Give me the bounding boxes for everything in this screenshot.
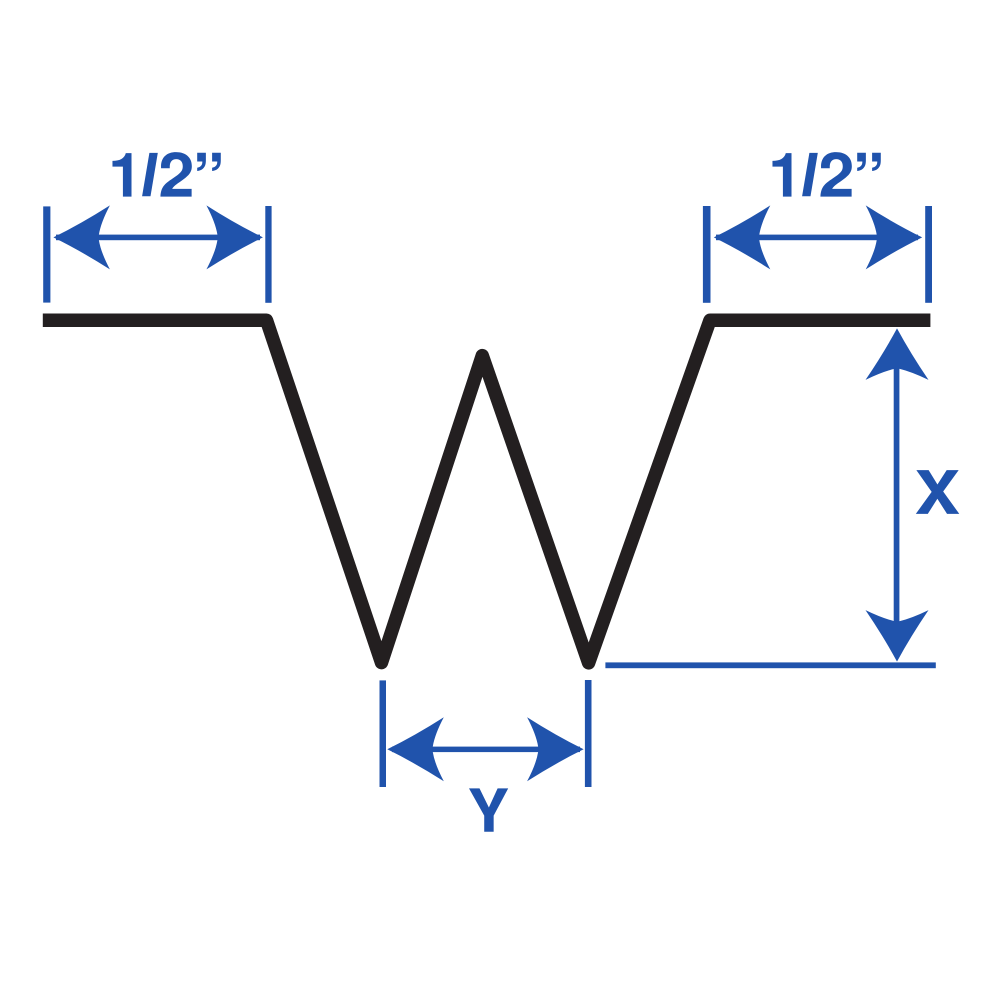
- label 1/2" left: slash: [142, 153, 158, 196]
- dim right: tick right: [925, 206, 932, 303]
- profile W outline: [43, 320, 931, 663]
- dim left: arrowhead right: [206, 205, 263, 269]
- label 1/2" left: digit 1: [112, 153, 131, 197]
- label X: [916, 470, 959, 514]
- dim X: shaft: [894, 335, 900, 655]
- dim X: arrowhead up: [866, 328, 929, 380]
- label 1/2" right: quotes: [857, 153, 881, 171]
- dim Y: shaft: [392, 747, 580, 753]
- label 1/2" left: quotes: [197, 153, 221, 171]
- label 1/2" left: digit 2: [160, 152, 191, 196]
- label 1/2" right: slash: [802, 153, 818, 196]
- dim Y: tick right: [585, 680, 592, 787]
- dim left: arrowhead left: [53, 205, 110, 269]
- label 1/2" right: digit 2: [820, 152, 851, 196]
- dim Y: tick left: [380, 680, 387, 787]
- dim right: arrowhead left: [714, 205, 771, 269]
- dim Y: arrowhead left: [387, 717, 444, 781]
- dim left: tick right: [265, 206, 271, 303]
- dim right: shaft: [716, 235, 918, 241]
- dim X: arrowhead down: [866, 610, 929, 662]
- dim Y: arrowhead right: [527, 717, 584, 781]
- dim left: shaft: [56, 235, 260, 241]
- label 1/2" right: digit 1: [772, 153, 791, 197]
- label Y: [469, 788, 508, 831]
- dim right: arrowhead right: [866, 205, 923, 269]
- dim right: tick left: [703, 206, 711, 303]
- extension line bottom right: [605, 662, 935, 668]
- dim left: tick left: [43, 206, 50, 302]
